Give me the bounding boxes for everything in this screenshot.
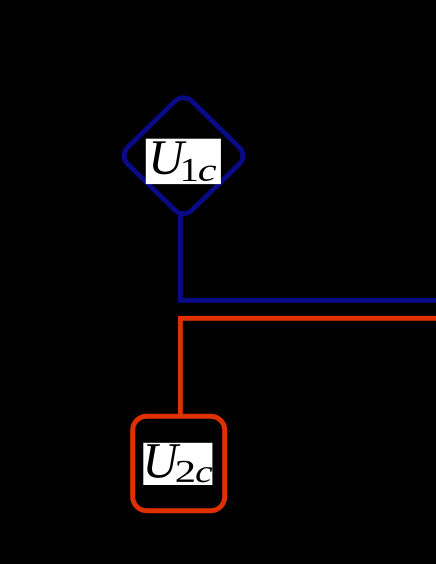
wire red: from right edge left then down to box top [180, 318, 436, 416]
node U2c rounded square [133, 416, 225, 511]
node U1c diamond [119, 93, 248, 219]
label U2c background [143, 443, 212, 485]
wire blue: from diamond bottom down then right to edge [180, 214, 436, 300]
label U2c subscript c [196, 467, 212, 482]
label U1c text U [153, 141, 187, 174]
label U1c background [146, 139, 221, 184]
label U2c text U [147, 444, 180, 478]
label U1c subscript c [199, 166, 216, 182]
label U1c subscript 1 [183, 159, 196, 181]
label U2c subscript 2 [177, 461, 194, 482]
